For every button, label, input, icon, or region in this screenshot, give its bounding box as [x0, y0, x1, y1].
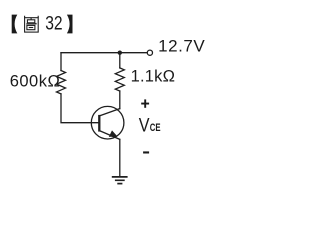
svg-text:CE: CE [150, 122, 161, 134]
svg-text:V: V [139, 116, 150, 137]
svg-text:12.7V: 12.7V [158, 37, 205, 56]
svg-text:32: 32 [45, 12, 62, 34]
svg-text:1.1kΩ: 1.1kΩ [131, 68, 176, 86]
svg-text:600kΩ: 600kΩ [10, 73, 61, 91]
